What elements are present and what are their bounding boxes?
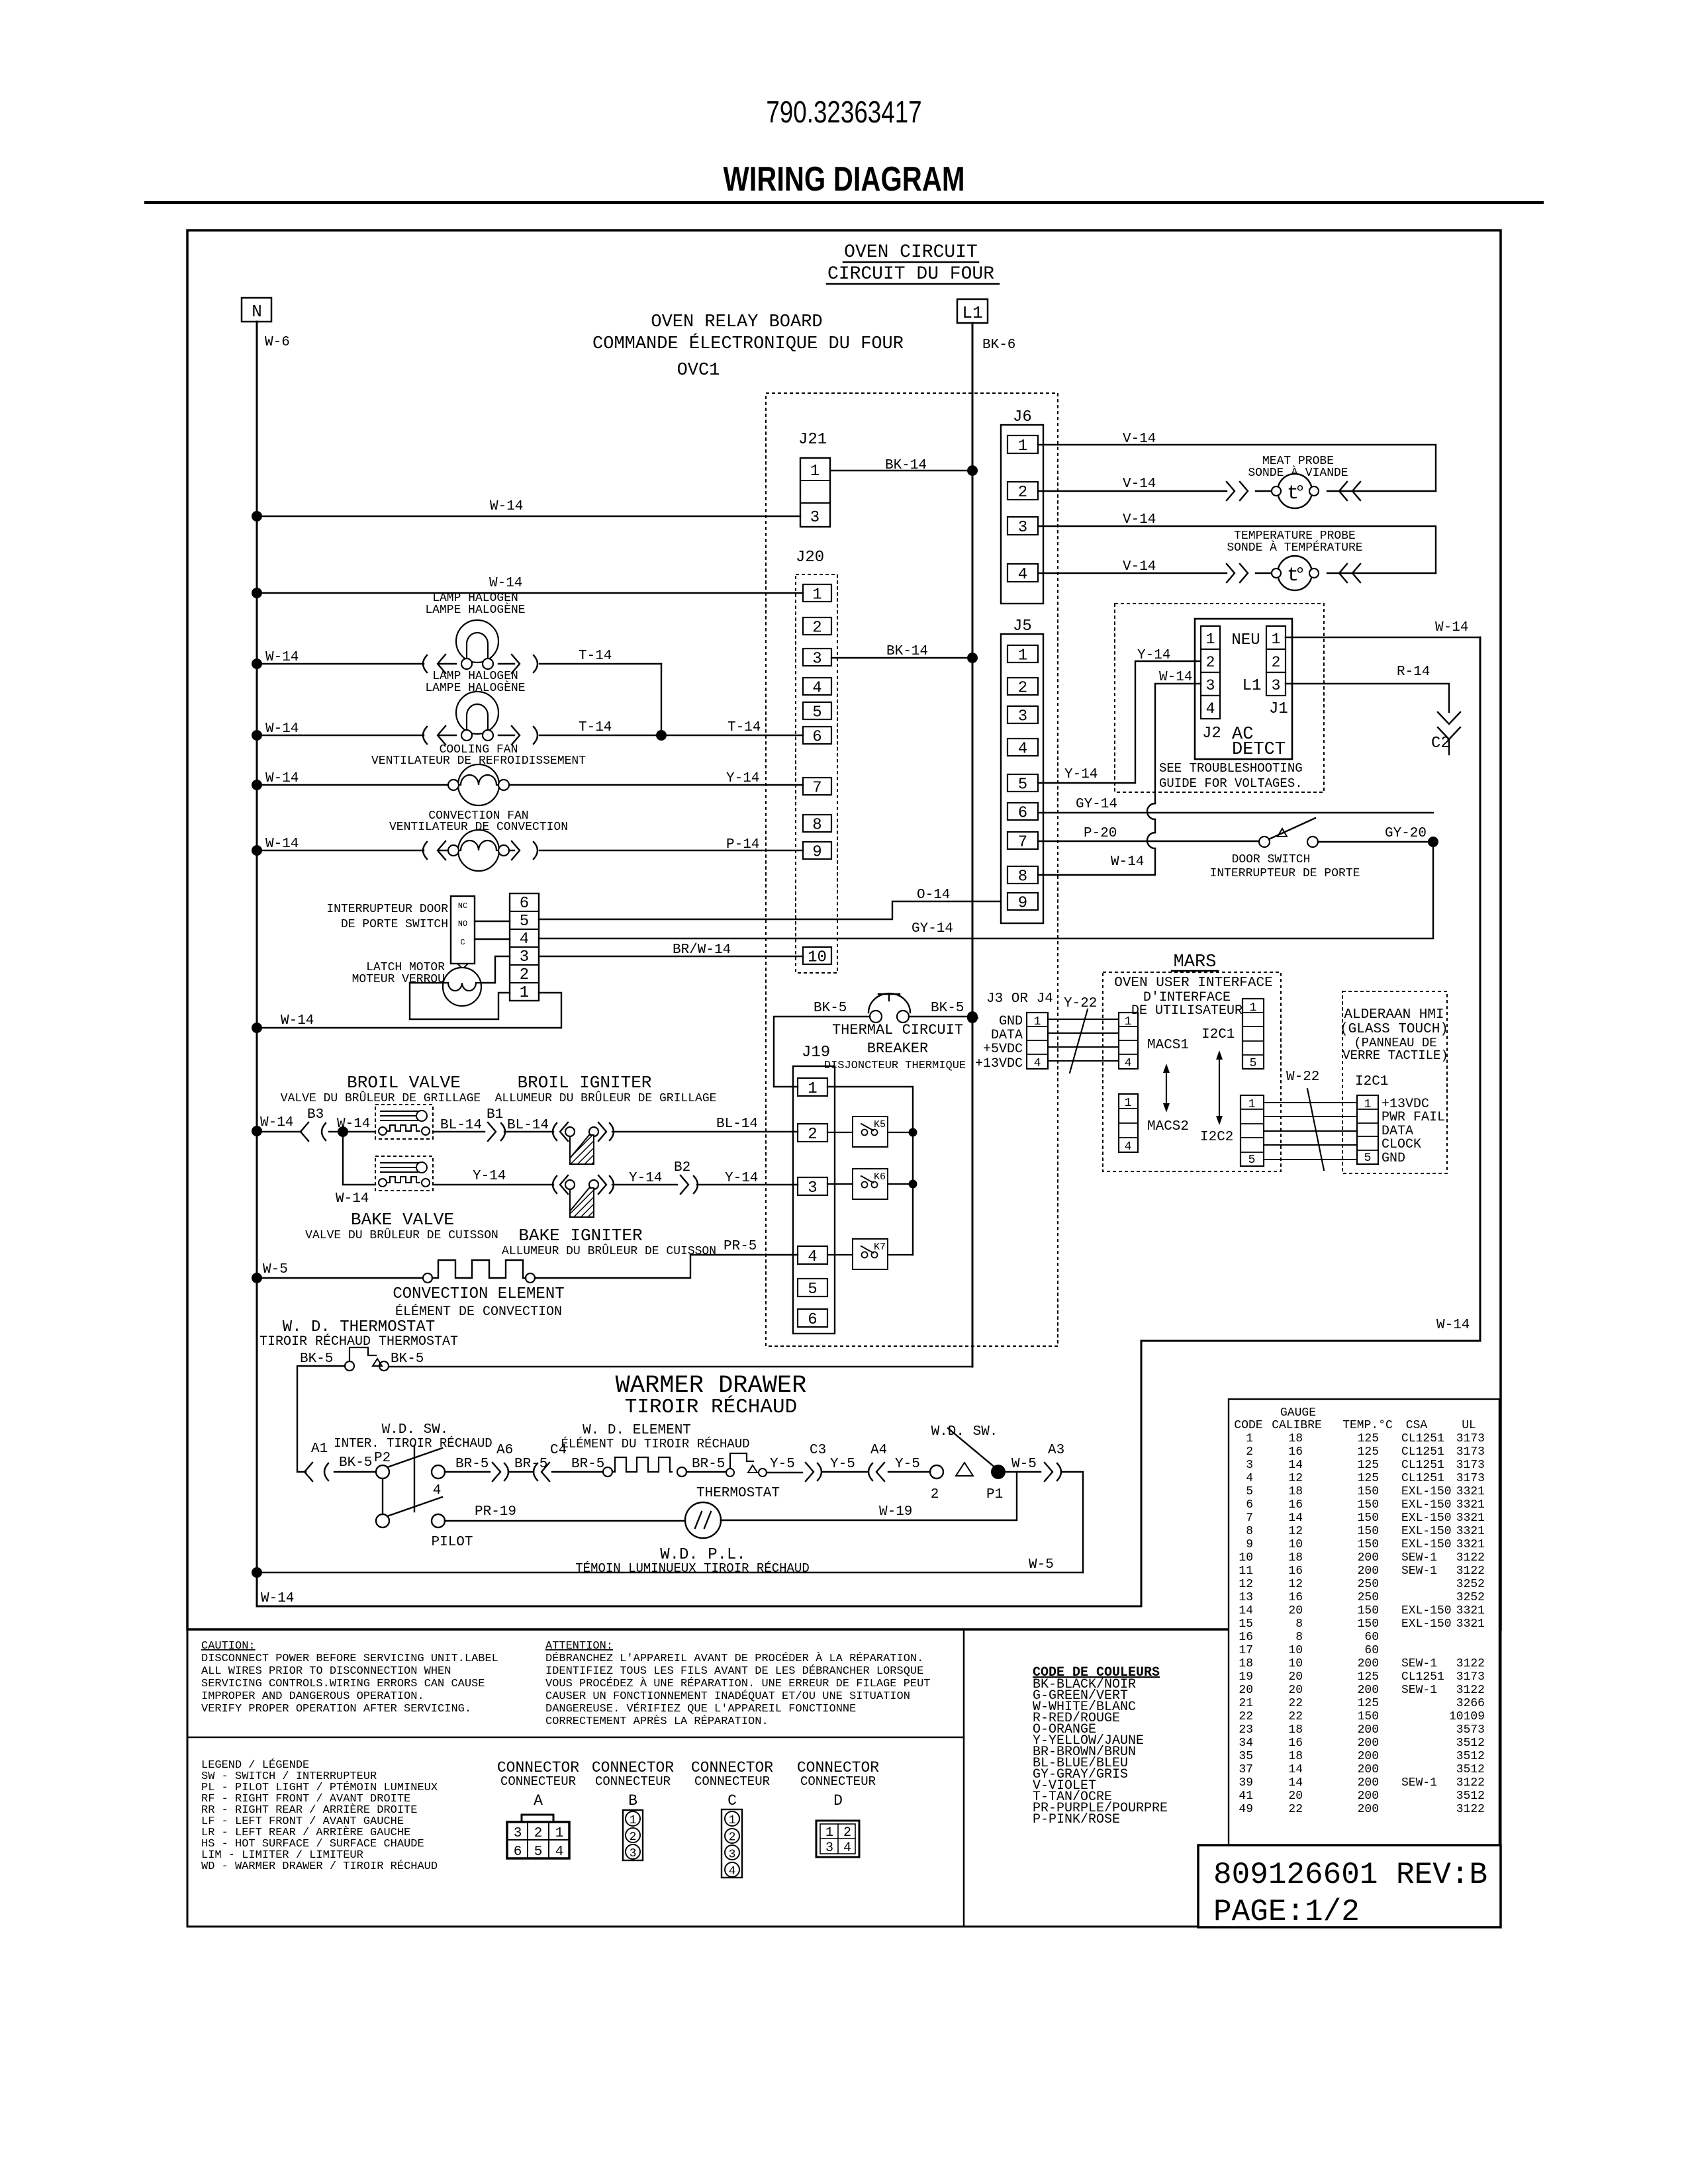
svg-text:EXL-150: EXL-150 (1401, 1485, 1452, 1498)
wire W-14 bake branch (336, 1132, 375, 1206)
svg-text:3: 3 (1272, 677, 1281, 694)
svg-text:16: 16 (1288, 1498, 1303, 1512)
svg-text:14: 14 (1288, 1512, 1303, 1525)
label connector D (797, 1759, 879, 1809)
svg-text:ALDERAAN HMI: ALDERAAN HMI (1344, 1007, 1444, 1023)
svg-text:LAMP HALOGEN: LAMP HALOGEN (432, 592, 518, 605)
svg-text:4: 4 (433, 1483, 442, 1498)
svg-text:BR/W-14: BR/W-14 (673, 942, 731, 958)
svg-text:20: 20 (1288, 1684, 1303, 1697)
svg-text:6: 6 (520, 895, 529, 913)
svg-text:3321: 3321 (1456, 1604, 1485, 1617)
svg-text:3122: 3122 (1456, 1551, 1485, 1565)
svg-text:23: 23 (1239, 1723, 1253, 1737)
svg-text:12: 12 (1288, 1525, 1303, 1538)
svg-text:W-5: W-5 (1029, 1557, 1054, 1572)
svg-text:T-14: T-14 (579, 649, 612, 664)
label OVEN RELAY BOARD (592, 312, 904, 381)
svg-text:BR-5: BR-5 (455, 1457, 489, 1472)
svg-text:CL1251: CL1251 (1401, 1445, 1444, 1459)
svg-text:3173: 3173 (1456, 1459, 1485, 1472)
svg-text:P1: P1 (986, 1487, 1003, 1502)
svg-text:LAMPE HALOGÈNE: LAMPE HALOGÈNE (425, 602, 525, 617)
svg-text:DE UTILISATEUR: DE UTILISATEUR (1131, 1003, 1243, 1019)
connector J20 (796, 549, 837, 973)
svg-text:VALVE DU BRÛLEUR DE CUISSON: VALVE DU BRÛLEUR DE CUISSON (305, 1228, 498, 1242)
svg-text:PR-5: PR-5 (724, 1239, 757, 1254)
wire PR-19 pole2 to pilot light (445, 1504, 685, 1521)
svg-text:B1: B1 (487, 1107, 503, 1122)
svg-text:GND: GND (1382, 1151, 1405, 1166)
svg-text:125: 125 (1358, 1445, 1379, 1459)
color code list (1033, 1665, 1168, 1827)
svg-text:SEW-1: SEW-1 (1401, 1776, 1437, 1790)
svg-text:9: 9 (1018, 895, 1027, 913)
node junction W-14 J20-1 (252, 588, 262, 598)
svg-text:13: 13 (1239, 1591, 1253, 1604)
wire Y-14 bake valve to igniter (433, 1169, 553, 1185)
wire relay common from J19 pin1 (827, 1087, 917, 1255)
svg-text:V-14: V-14 (1123, 477, 1156, 492)
svg-text:THERMOSTAT: THERMOSTAT (696, 1486, 780, 1501)
svg-text:4: 4 (1018, 741, 1027, 758)
svg-text:12: 12 (1288, 1472, 1303, 1485)
svg-text:LEGEND / LÉGENDE: LEGEND / LÉGENDE (201, 1758, 309, 1772)
connector C drawing (722, 1809, 742, 1878)
connector J6 (1001, 408, 1043, 604)
svg-text:200: 200 (1358, 1737, 1379, 1750)
svg-text:125: 125 (1358, 1459, 1379, 1472)
svg-text:60: 60 (1364, 1644, 1379, 1657)
svg-text:EXL-150: EXL-150 (1401, 1498, 1452, 1512)
svg-text:6: 6 (1246, 1498, 1253, 1512)
svg-text:1: 1 (1246, 1432, 1253, 1445)
svg-text:W-14: W-14 (1435, 620, 1468, 635)
label connector B (592, 1759, 674, 1809)
svg-text:7: 7 (812, 780, 821, 797)
svg-text:CONNECTEUR: CONNECTEUR (595, 1774, 671, 1789)
svg-text:3321: 3321 (1456, 1512, 1485, 1525)
svg-text:SEW-1: SEW-1 (1401, 1565, 1437, 1578)
svg-text:20: 20 (1288, 1790, 1303, 1803)
node L1 (line terminal) (957, 299, 1015, 353)
node N (neutral terminal) (242, 298, 290, 350)
svg-text:5: 5 (1248, 1154, 1256, 1167)
svg-text:1: 1 (1034, 1015, 1041, 1028)
svg-text:17: 17 (1239, 1644, 1253, 1657)
node junction W-5 (252, 1273, 262, 1283)
svg-text:J3 OR J4: J3 OR J4 (986, 991, 1053, 1007)
svg-text:4: 4 (1206, 700, 1215, 717)
svg-text:B2: B2 (674, 1160, 690, 1175)
svg-text:14: 14 (1288, 1776, 1303, 1790)
svg-text:W-19: W-19 (879, 1504, 912, 1520)
bake igniter (502, 1175, 716, 1258)
door switch (oven light, right) (1210, 818, 1360, 880)
svg-text:A6: A6 (496, 1443, 513, 1458)
svg-text:VALVE DU BRÛLEUR DE GRILLAGE: VALVE DU BRÛLEUR DE GRILLAGE (281, 1091, 481, 1105)
svg-text:3: 3 (825, 1841, 833, 1856)
svg-text:3: 3 (810, 509, 820, 527)
svg-text:W-14: W-14 (265, 650, 299, 665)
svg-text:DISJONCTEUR THERMIQUE: DISJONCTEUR THERMIQUE (824, 1060, 966, 1072)
svg-text:2: 2 (630, 1831, 637, 1844)
svg-text:ÉLÉMENT DE CONVECTION: ÉLÉMENT DE CONVECTION (395, 1304, 562, 1320)
svg-text:6: 6 (812, 729, 821, 747)
svg-text:SONDE À TEMPÉRATURE: SONDE À TEMPÉRATURE (1227, 540, 1362, 555)
svg-text:NO: NO (458, 919, 467, 929)
temperature probe sensor t deg (1227, 529, 1362, 590)
svg-text:4: 4 (812, 680, 821, 698)
svg-text:LR - LEFT REAR / ARRIÈRE GAUCH: LR - LEFT REAR / ARRIÈRE GAUCHE (201, 1826, 410, 1839)
svg-text:K7: K7 (874, 1242, 886, 1253)
lamp halogen 2 (257, 670, 661, 741)
attention text block (545, 1640, 931, 1728)
wire W-14/W-5 warmer bottom return (257, 1557, 1083, 1606)
svg-text:P-PINK/ROSE: P-PINK/ROSE (1033, 1812, 1120, 1827)
svg-text:C3: C3 (810, 1443, 826, 1458)
svg-text:D: D (833, 1792, 843, 1809)
svg-text:BK-5: BK-5 (391, 1351, 424, 1367)
svg-text:3573: 3573 (1456, 1723, 1485, 1737)
svg-text:R-14: R-14 (1397, 664, 1430, 680)
svg-text:Y-14: Y-14 (473, 1169, 506, 1184)
troubleshooting note box (dashed) (1115, 604, 1324, 792)
wire latch motor left loop to pin 1 (410, 983, 510, 1019)
svg-text:1: 1 (555, 1826, 564, 1841)
svg-text:Y-5: Y-5 (895, 1457, 920, 1472)
wire door switch C to pin 4 (475, 938, 510, 940)
svg-text:4: 4 (843, 1841, 851, 1856)
svg-text:W-14: W-14 (265, 771, 299, 786)
svg-text:2: 2 (812, 619, 821, 637)
svg-text:CLOCK: CLOCK (1382, 1137, 1421, 1152)
svg-text:Y-14: Y-14 (725, 1171, 758, 1186)
svg-text:150: 150 (1358, 1485, 1379, 1498)
legend text block (201, 1758, 438, 1873)
svg-text:BK-6: BK-6 (982, 338, 1015, 353)
svg-text:60: 60 (1364, 1631, 1379, 1644)
caution text block (201, 1640, 498, 1715)
door switch (oven door, NC/NO/C) (326, 896, 475, 969)
svg-text:5: 5 (812, 704, 821, 722)
svg-text:35: 35 (1239, 1750, 1253, 1763)
svg-text:J21: J21 (798, 431, 827, 449)
svg-text:150: 150 (1358, 1538, 1379, 1551)
svg-text:8: 8 (1295, 1631, 1303, 1644)
wire GY-20 door switch to riser (1318, 826, 1438, 847)
wire BK-5 L1 bus to warmer drawer (388, 1366, 972, 1367)
svg-text:49: 49 (1239, 1803, 1253, 1816)
svg-text:TIROIR RÉCHAUD: TIROIR RÉCHAUD (625, 1394, 797, 1419)
svg-text:I2C1: I2C1 (1201, 1027, 1235, 1042)
thermal circuit breaker (814, 993, 966, 1072)
svg-text:250: 250 (1358, 1591, 1379, 1604)
svg-text:I2C1: I2C1 (1355, 1074, 1388, 1089)
oven relay board OVC1 (dashed outline) (766, 393, 1058, 1346)
wire Y-14 cooling fan to J20 pin 7 (726, 771, 759, 786)
svg-text:INTERRUPTEUR DOOR: INTERRUPTEUR DOOR (326, 903, 448, 916)
svg-text:200: 200 (1358, 1750, 1379, 1763)
svg-text:L1: L1 (1243, 677, 1262, 695)
svg-text:J5: J5 (1013, 617, 1032, 635)
svg-text:EXL-150: EXL-150 (1401, 1604, 1452, 1617)
svg-text:3: 3 (1018, 519, 1027, 537)
svg-text:200: 200 (1358, 1763, 1379, 1776)
meat probe sensor t deg (1248, 455, 1348, 508)
svg-text:W-14: W-14 (265, 837, 299, 852)
svg-text:W.D. SW.: W.D. SW. (382, 1422, 449, 1437)
connector door/latch 6-pin (510, 893, 539, 1002)
svg-text:A1: A1 (311, 1441, 328, 1457)
svg-text:12: 12 (1288, 1578, 1303, 1591)
svg-text:B: B (628, 1792, 637, 1809)
svg-text:COMMANDE ÉLECTRONIQUE DU FOUR: COMMANDE ÉLECTRONIQUE DU FOUR (592, 333, 904, 354)
svg-text:PAGE:1/2: PAGE:1/2 (1213, 1895, 1360, 1929)
svg-text:UL: UL (1462, 1419, 1476, 1432)
svg-text:18: 18 (1288, 1750, 1303, 1763)
svg-text:DE PORTE SWITCH: DE PORTE SWITCH (341, 918, 448, 931)
svg-text:6: 6 (808, 1311, 817, 1329)
cooling fan motor (257, 743, 803, 805)
wire W-14 J5 pin8 to J2 pin3 (1038, 670, 1201, 875)
svg-text:BL-14: BL-14 (716, 1116, 758, 1132)
svg-text:125: 125 (1358, 1472, 1379, 1485)
svg-text:2: 2 (520, 966, 529, 984)
svg-text:OVEN CIRCUIT: OVEN CIRCUIT (844, 242, 978, 263)
svg-text:BK-5: BK-5 (300, 1351, 333, 1367)
svg-text:Y-5: Y-5 (830, 1457, 855, 1472)
svg-text:RR - RIGHT REAR / ARRIÈRE DROI: RR - RIGHT REAR / ARRIÈRE DROITE (201, 1803, 417, 1817)
svg-text:J2: J2 (1202, 725, 1221, 743)
svg-text:BK-5: BK-5 (931, 1001, 964, 1016)
svg-text:VERRE TACTILE): VERRE TACTILE) (1342, 1048, 1448, 1063)
svg-text:1: 1 (1018, 647, 1027, 665)
svg-text:16: 16 (1288, 1445, 1303, 1459)
svg-text:IDENTIFIEZ TOUS LES FILS AVANT: IDENTIFIEZ TOUS LES FILS AVANT DE LES DÉ… (545, 1664, 923, 1678)
svg-text:t°: t° (1287, 482, 1303, 505)
wire V-14 meat probe return to J6 pin2 (1038, 477, 1436, 492)
svg-text:3321: 3321 (1456, 1538, 1485, 1551)
svg-text:7: 7 (1246, 1512, 1253, 1525)
wire GY-14 door pin4 long line (539, 843, 1433, 938)
svg-text:1: 1 (825, 1825, 833, 1841)
svg-text:INTERRUPTEUR DE PORTE: INTERRUPTEUR DE PORTE (1210, 867, 1360, 880)
wire W-14 latch branch (257, 993, 561, 1028)
svg-text:37: 37 (1239, 1763, 1253, 1776)
svg-text:3122: 3122 (1456, 1565, 1485, 1578)
node junction convection fan (252, 845, 262, 856)
svg-text:22: 22 (1288, 1710, 1303, 1723)
connector arrows meat probe (1227, 482, 1360, 500)
connector B drawing (623, 1810, 643, 1860)
wire harness Y-22 J3/J4 to MACS1 (1048, 996, 1119, 1073)
wire Y-14 bake igniter to J19 pin3 with B2 connector (612, 1160, 798, 1194)
svg-text:BL-14: BL-14 (507, 1118, 549, 1133)
svg-text:CL1251: CL1251 (1401, 1432, 1444, 1445)
svg-text:4: 4 (1034, 1057, 1041, 1070)
svg-text:DANGEREUSE. VÉRIFIEZ QUE L'APP: DANGEREUSE. VÉRIFIEZ QUE L'APPAREIL FONC… (545, 1702, 856, 1715)
title model number 790.32363417 (766, 95, 921, 129)
svg-text:B3: B3 (307, 1107, 324, 1122)
svg-text:150: 150 (1358, 1710, 1379, 1723)
wire BK-5 thermostat to W.D. switch (297, 1366, 345, 1472)
svg-text:DETCT: DETCT (1232, 740, 1286, 760)
svg-text:W-14: W-14 (336, 1191, 369, 1206)
svg-text:BROIL IGNITER: BROIL IGNITER (518, 1073, 652, 1093)
wire BL-14 broil valve to igniter with B1 connector (433, 1107, 553, 1141)
wire W-6 neutral bus (left vertical from N) (256, 322, 258, 1606)
svg-text:3: 3 (812, 651, 821, 668)
connector I2C2 (1200, 1095, 1264, 1167)
svg-text:1: 1 (1250, 1001, 1257, 1015)
svg-text:CIRCUIT DU FOUR: CIRCUIT DU FOUR (827, 264, 994, 285)
svg-text:ALLUMEUR DU BRÛLEUR DE GRILLAG: ALLUMEUR DU BRÛLEUR DE GRILLAGE (495, 1091, 717, 1105)
svg-text:10: 10 (808, 949, 827, 967)
wire GND tap from BK-5 bus (967, 1013, 978, 1023)
wire BL-14 broil igniter to J19 pin2 (612, 1116, 798, 1132)
connector D drawing (816, 1821, 859, 1857)
svg-text:5: 5 (520, 913, 529, 931)
svg-text:3512: 3512 (1456, 1790, 1485, 1803)
connector J1 (AC detect output) (1266, 626, 1286, 696)
svg-text:CL1251: CL1251 (1401, 1670, 1444, 1684)
svg-text:OVEN RELAY BOARD: OVEN RELAY BOARD (651, 312, 822, 332)
svg-text:3: 3 (729, 1848, 736, 1861)
wire BR-5 pole1 to element with A6 C4 connectors (445, 1443, 604, 1481)
W.D. thermostat (259, 1318, 458, 1371)
svg-text:41: 41 (1239, 1790, 1253, 1803)
svg-text:3173: 3173 (1456, 1670, 1485, 1684)
wire Y-14 J5 pin5 to J2 pin2 (1038, 648, 1201, 783)
svg-text:150: 150 (1358, 1604, 1379, 1617)
oven user interface board (dashed) (1103, 972, 1281, 1171)
svg-text:2: 2 (843, 1825, 851, 1841)
svg-text:2: 2 (534, 1826, 543, 1841)
svg-text:L1: L1 (962, 303, 982, 323)
svg-text:4: 4 (1018, 566, 1027, 584)
svg-text:DOOR SWITCH: DOOR SWITCH (1232, 853, 1311, 866)
node junction lamp2 (252, 730, 262, 741)
svg-text:TEMP.°C: TEMP.°C (1342, 1419, 1393, 1432)
svg-text:5: 5 (1246, 1485, 1253, 1498)
svg-text:A: A (534, 1792, 543, 1809)
part number box 809126601 REV:B PAGE:1/2 (1198, 1845, 1501, 1929)
svg-text:150: 150 (1358, 1525, 1379, 1538)
svg-text:1: 1 (1272, 631, 1281, 648)
svg-text:3512: 3512 (1456, 1750, 1485, 1763)
svg-text:1: 1 (630, 1814, 637, 1827)
header underline (146, 201, 1542, 204)
svg-text:GAUGE: GAUGE (1280, 1406, 1316, 1420)
svg-text:DATA: DATA (991, 1028, 1023, 1043)
svg-text:Y-14: Y-14 (1064, 767, 1098, 782)
connector arrows convection fan (423, 841, 538, 860)
svg-text:MEAT PROBE: MEAT PROBE (1262, 455, 1334, 468)
svg-text:VOUS PROCÉDEZ À UNE RÉPARATION: VOUS PROCÉDEZ À UNE RÉPARATION. UNE ERRE… (545, 1677, 931, 1690)
svg-text:4: 4 (555, 1844, 564, 1860)
svg-text:J6: J6 (1013, 408, 1032, 426)
connector I2C1 HMI (1357, 1095, 1445, 1166)
svg-text:200: 200 (1358, 1565, 1379, 1578)
svg-text:3: 3 (808, 1179, 817, 1197)
svg-text:5: 5 (808, 1281, 817, 1298)
svg-text:BAKE IGNITER: BAKE IGNITER (518, 1226, 642, 1246)
svg-text:CORRECTEMENT APRÈS LA RÉPARATI: CORRECTEMENT APRÈS LA RÉPARATION. (545, 1715, 769, 1728)
connector J19 (793, 1044, 835, 1334)
svg-text:P-20: P-20 (1084, 826, 1117, 841)
wire gauge table (1229, 1399, 1499, 1845)
relay K7 (827, 1239, 913, 1269)
svg-text:P-14: P-14 (726, 837, 759, 852)
connector A drawing (507, 1815, 569, 1860)
svg-text:3: 3 (1246, 1459, 1253, 1472)
svg-text:C: C (727, 1792, 737, 1809)
relay K6 (827, 1169, 913, 1199)
svg-text:DISCONNECT POWER BEFORE SERVIC: DISCONNECT POWER BEFORE SERVICING UNIT.L… (201, 1653, 498, 1665)
svg-text:18: 18 (1288, 1551, 1303, 1565)
svg-text:18: 18 (1239, 1657, 1253, 1670)
svg-text:2: 2 (931, 1487, 939, 1502)
wire W-14 broil branch with B3 connector (257, 1107, 375, 1141)
wire BK-14 from J21 pin 1 (830, 458, 978, 476)
svg-text:4: 4 (1125, 1057, 1132, 1070)
arrow MACS1-MACS2 (1163, 1064, 1170, 1113)
svg-text:39: 39 (1239, 1776, 1253, 1790)
svg-text:5: 5 (1364, 1152, 1372, 1165)
svg-text:1: 1 (1206, 631, 1215, 648)
svg-text:C2: C2 (1431, 735, 1450, 752)
W.D. element (561, 1423, 749, 1477)
AC DETCT board box (1195, 619, 1292, 760)
svg-text:3266: 3266 (1456, 1697, 1485, 1710)
wire BK-5 breaker to J19 pin1 (774, 1017, 870, 1087)
svg-text:BREAKER: BREAKER (867, 1040, 928, 1057)
svg-text:1: 1 (1364, 1098, 1372, 1111)
svg-text:PILOT: PILOT (431, 1535, 473, 1550)
svg-text:CL1251: CL1251 (1401, 1472, 1444, 1485)
svg-text:7: 7 (1018, 834, 1027, 852)
svg-text:GND: GND (999, 1014, 1023, 1029)
svg-text:CONVECTION ELEMENT: CONVECTION ELEMENT (393, 1285, 564, 1303)
svg-text:150: 150 (1358, 1498, 1379, 1512)
svg-text:6: 6 (514, 1844, 522, 1860)
svg-text:Y-5: Y-5 (770, 1457, 795, 1472)
svg-text:EXL-150: EXL-150 (1401, 1512, 1452, 1525)
svg-text:1: 1 (1125, 1097, 1132, 1110)
svg-text:2: 2 (1246, 1445, 1253, 1459)
svg-text:8: 8 (1295, 1617, 1303, 1631)
svg-text:2: 2 (729, 1831, 736, 1844)
svg-text:NEU: NEU (1231, 631, 1260, 649)
wire W-5 switch2 to A3 connector (1006, 1443, 1083, 1572)
svg-text:3321: 3321 (1456, 1485, 1485, 1498)
svg-text:WIRING DIAGRAM: WIRING DIAGRAM (723, 159, 964, 199)
svg-text:22: 22 (1288, 1697, 1303, 1710)
svg-text:12: 12 (1239, 1578, 1253, 1591)
svg-text:CONNECTEUR: CONNECTEUR (500, 1774, 576, 1789)
bake valve (305, 1156, 498, 1242)
svg-text:9: 9 (1246, 1538, 1253, 1551)
label MARS (1172, 952, 1218, 972)
svg-text:3: 3 (1206, 677, 1215, 694)
svg-text:6: 6 (1018, 805, 1027, 823)
wire W-14 lamp halogen 1 branch (257, 576, 803, 593)
svg-text:P2: P2 (374, 1451, 391, 1466)
svg-text:MACS2: MACS2 (1147, 1119, 1189, 1134)
svg-text:W-14: W-14 (261, 1591, 294, 1606)
svg-text:200: 200 (1358, 1790, 1379, 1803)
